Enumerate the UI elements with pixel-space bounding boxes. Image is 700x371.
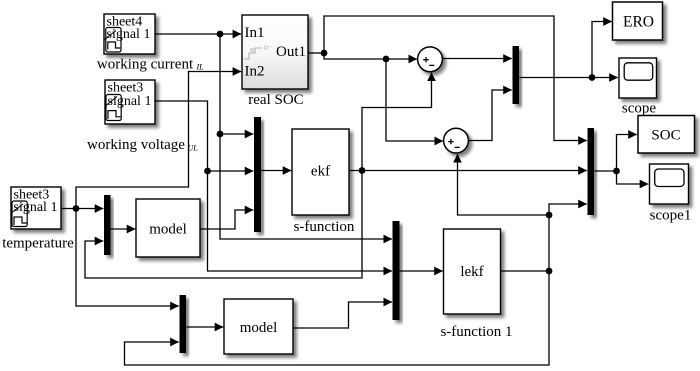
svg-text:lekf: lekf	[460, 264, 483, 280]
wire lekf feedback bottom to mux6 input2	[125, 271, 550, 365]
svg-text:IL: IL	[196, 63, 205, 72]
wire temperature up branch to In2	[76, 72, 241, 209]
wire node A jog to sum1 plus input	[324, 53, 417, 59]
scope block scope1	[650, 164, 689, 204]
node junction voltage mux3	[204, 168, 211, 175]
mux3	[254, 117, 261, 232]
node junction current In1	[217, 31, 224, 38]
svg-text:scope: scope	[622, 101, 656, 117]
wire ekf output to mux2 input2	[349, 170, 587, 172]
node D junction lekf up	[546, 212, 553, 219]
block model 1	[224, 299, 293, 354]
svg-text:In2: In2	[245, 64, 265, 80]
svg-text:Out1: Out1	[276, 44, 306, 60]
svg-text:ERO: ERO	[623, 14, 654, 31]
wire node A top route to mux2 input1	[324, 16, 587, 141]
wire lekf output to node C	[500, 270, 549, 272]
subsystem real SOC	[242, 15, 308, 89]
wire mux1 output to scope	[520, 77, 618, 79]
wire model output to mux3 input3	[200, 210, 253, 229]
wire working voltage down to mux4 input2	[155, 101, 392, 271]
wire node D left to sum2 minus input	[458, 154, 550, 215]
node junction mux1 output	[589, 74, 596, 81]
node C junction lekf output	[546, 268, 553, 275]
sum1	[418, 47, 443, 72]
svg-text:working voltage: working voltage	[87, 137, 185, 153]
svg-text:scope1: scope1	[650, 208, 692, 224]
source block sheet4 working current	[104, 14, 155, 54]
mux4	[393, 221, 400, 320]
wire mux4 output to lekf	[400, 270, 443, 272]
wire node C up to node D	[548, 215, 550, 271]
block model	[136, 199, 200, 257]
wire ekf feedback to mux5 input2	[85, 171, 362, 279]
s-function block ekf	[292, 129, 349, 215]
wire temperature to mux5 input1	[61, 208, 103, 210]
node E junction mux2 output	[613, 168, 620, 175]
svg-text:signal 1: signal 1	[14, 200, 58, 215]
scope block scope	[619, 58, 657, 98]
wire mux6 output to model 1	[187, 326, 224, 328]
source block sheet3 temperature	[11, 187, 61, 229]
wire model 1 output to mux4 input3	[293, 302, 392, 328]
mux1	[513, 46, 520, 104]
svg-text:s-function: s-function	[294, 219, 355, 235]
wire Out1 to node A	[308, 52, 324, 54]
svg-text:working current: working current	[97, 57, 194, 73]
wire node B down to sum2 plus input	[386, 59, 443, 141]
wire mux2 output to node E	[595, 170, 617, 172]
wire node E down to scope1	[617, 171, 649, 184]
wire working current to In1	[155, 33, 241, 35]
svg-text:UL: UL	[188, 144, 199, 153]
wire mux3 output to ekf	[261, 170, 291, 172]
mux6	[180, 295, 187, 353]
node junction current mux3	[217, 131, 224, 138]
svg-text:SOC: SOC	[651, 128, 680, 144]
svg-text:temperature: temperature	[2, 236, 74, 252]
node junction ekf output	[359, 167, 366, 174]
svg-text:real SOC: real SOC	[248, 92, 303, 108]
svg-text:In1: In1	[245, 25, 265, 41]
wire ekf feedback up to sum1 minus input	[362, 73, 432, 171]
wire branch to ERO	[592, 22, 612, 78]
wire mux5 output to model	[111, 228, 136, 230]
sum2	[444, 128, 469, 153]
wire temperature down branch to mux6 input1	[76, 209, 179, 307]
display block ERO	[613, 2, 663, 40]
node A junction Out1	[321, 50, 328, 57]
wire working current down branch to mux4 input1	[220, 34, 392, 239]
s-function block lekf	[444, 229, 501, 314]
source block sheet3 working voltage	[105, 80, 155, 124]
node B junction sum feed	[383, 56, 390, 63]
mux5	[104, 195, 111, 255]
wire current branch to mux3 input1	[220, 133, 253, 135]
svg-text:s-function 1: s-function 1	[440, 324, 512, 340]
mux2	[588, 128, 595, 215]
svg-text:model: model	[240, 320, 278, 336]
svg-text:model: model	[149, 222, 187, 238]
node junction temperature	[73, 205, 80, 212]
wire voltage branch to mux3 input2	[208, 170, 254, 172]
wire sum1 output to mux1 input1	[442, 58, 512, 60]
svg-text:signal 1: signal 1	[108, 94, 152, 109]
svg-text:signal 1: signal 1	[107, 27, 151, 42]
wire node D to mux2 input3	[549, 204, 587, 215]
wire node E up to SOC	[617, 135, 637, 172]
wire sum2 output to mux1 input2	[468, 90, 512, 141]
svg-text:ekf: ekf	[311, 164, 330, 180]
display block SOC	[638, 116, 695, 154]
